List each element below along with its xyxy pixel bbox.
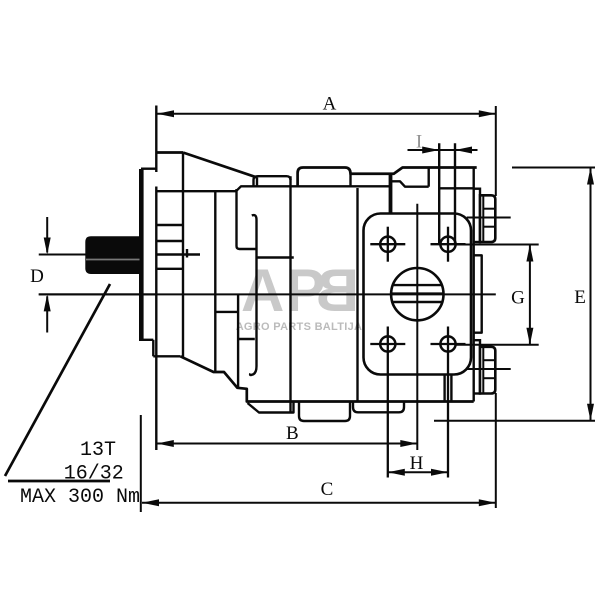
wire internal vertical left of port boss	[428, 168, 430, 187]
wire bearing bore top line	[157, 240, 182, 242]
arrow H left	[388, 469, 405, 476]
wire internal line right	[238, 338, 255, 340]
splined drive shaft	[85, 236, 139, 274]
svg-text:AP: AP	[241, 257, 326, 324]
wire taper end vertical	[256, 178, 258, 187]
wire internal housing split line	[157, 186, 391, 191]
wire G bottom extension line	[455, 344, 539, 346]
wire leader line	[5, 284, 110, 476]
wire plate vertical centerline / B extension	[416, 204, 418, 450]
wire C right extension line from bottom fitting	[495, 393, 497, 508]
svg-text:G: G	[511, 288, 525, 309]
wire spline root line on shaft	[86, 259, 140, 261]
bolt hole bottom-left	[380, 336, 395, 351]
wire flange bottom edge	[139, 339, 153, 341]
wire A right extension line to top fitting	[495, 106, 497, 196]
arrow B left	[157, 440, 174, 447]
arrow C left	[142, 499, 159, 506]
foot 3 rounded	[353, 402, 404, 413]
wire bore chord line middle	[391, 292, 443, 294]
wire A extension line upper	[155, 106, 157, 173]
wire small stub	[186, 249, 188, 258]
wire bell-flange joint vertical	[182, 153, 184, 359]
wire right bolt column H extension	[447, 362, 449, 478]
wire flange top shoulder	[141, 167, 157, 169]
arrow B right	[400, 440, 417, 447]
svg-text:B: B	[316, 257, 359, 324]
wire top port centerline	[467, 217, 511, 219]
wire stud bottom jog	[237, 246, 257, 249]
wire section joint vertical through body	[289, 176, 291, 413]
bolt hole top-left	[380, 237, 395, 252]
wire I dimension line	[408, 149, 478, 151]
wire D dimension line lower	[46, 296, 48, 332]
flange front face thick bar	[139, 169, 144, 340]
wire E bottom extension line	[434, 420, 595, 422]
arrow A left	[157, 110, 174, 117]
wire H dimension line	[388, 471, 448, 473]
wire top fitting hex facet lower	[483, 226, 495, 228]
wire rear step below plate right	[450, 375, 452, 402]
wire note underline	[8, 480, 110, 483]
wire rear step below plate left	[443, 375, 445, 402]
arrow I left	[422, 147, 439, 154]
svg-text:16/32: 16/32	[64, 463, 124, 486]
arrow D upper	[44, 238, 51, 255]
svg-text:A: A	[323, 94, 337, 115]
wire E dimension line	[590, 168, 592, 421]
wire D bottom extension stub	[39, 293, 156, 295]
wire rear face vertical	[473, 168, 475, 402]
arrow A right	[479, 110, 496, 117]
wire internal stud line	[235, 189, 237, 246]
wire internal vertical lower	[237, 295, 239, 389]
watermark AP3 logo	[241, 257, 359, 324]
rear cover plate edge profile	[474, 255, 482, 332]
wire rear housing front joint vertical	[356, 188, 358, 401]
wire D top extension line	[39, 254, 86, 256]
wire bearing bore bottom line	[157, 268, 182, 270]
svg-text:D: D	[30, 266, 44, 287]
wire bottom profile of housing	[180, 356, 473, 401]
wire center body top with rounded corner	[298, 168, 345, 187]
svg-text:B: B	[286, 423, 299, 444]
wire bell housing bottom ledge	[153, 355, 180, 357]
wire shaft axis extension line in flange	[157, 253, 200, 255]
center bore circle	[391, 268, 443, 320]
rear mounting flange plate	[364, 214, 472, 375]
wire bottom fitting hex facet lower	[483, 377, 495, 379]
bolt hole top-right	[440, 237, 455, 252]
arrow E top	[587, 168, 594, 185]
thick rib at rear housing joint	[389, 174, 393, 215]
wire port boss left side / I extension	[438, 143, 440, 243]
wire C dimension line	[142, 502, 496, 504]
wire bore chord line upper	[393, 284, 441, 286]
top boss on front housing	[254, 176, 291, 186]
svg-text:C: C	[321, 479, 334, 500]
wire front cover joint vertical	[214, 191, 216, 372]
arrow H right	[431, 469, 448, 476]
wire flange right edge / B extension line	[155, 187, 157, 451]
bolt hole bottom-right	[440, 336, 455, 351]
wire snap ring line with top hook	[252, 215, 257, 366]
wire internal line chamfer right of thick rib	[392, 181, 429, 186]
svg-text:E: E	[574, 287, 586, 308]
wire bottom fitting washer line	[482, 347, 484, 394]
wire C left extension line	[140, 415, 142, 512]
svg-text:AGRO PARTS BALTIJA: AGRO PARTS BALTIJA	[236, 321, 363, 333]
wire main horizontal centerline / D bottom extension	[39, 293, 496, 295]
wire top fitting washer line	[482, 195, 484, 242]
wire flange top edge	[157, 151, 183, 154]
svg-text:H: H	[410, 453, 424, 474]
wire flange bottom step vertical	[152, 340, 154, 357]
arrow G top	[526, 245, 533, 262]
foot 2 rounded	[299, 402, 350, 422]
arrow D lower	[44, 294, 51, 311]
wire B dimension line	[157, 443, 418, 445]
wire bell housing tapered top edge	[183, 153, 257, 178]
wire A dimension line	[157, 113, 496, 115]
wire D dimension line upper	[46, 217, 48, 253]
wire internal line left	[215, 311, 238, 313]
arrow E bottom	[587, 404, 594, 421]
svg-text:I: I	[416, 132, 422, 153]
svg-text:13T: 13T	[80, 439, 116, 462]
wire top fitting hex facet upper	[483, 208, 495, 210]
wire E top extension line	[512, 167, 595, 169]
arrow I right	[455, 147, 472, 154]
wire port drilling bottom line	[439, 187, 474, 189]
arrow G bottom	[526, 328, 533, 345]
wire notch left vertical	[349, 174, 351, 187]
wire drive gear axis short line	[257, 256, 294, 258]
wire G dimension line	[529, 245, 531, 345]
bottom port fitting	[474, 340, 480, 393]
wire port boss right side / I extension	[454, 143, 456, 243]
foot 1 under gear housing	[248, 402, 294, 413]
wire bottom fitting hex facet upper	[483, 359, 495, 361]
wire left bolt column H extension	[387, 362, 389, 478]
wire snap ring bottom hook	[250, 366, 256, 375]
wire bore chord line lower	[393, 301, 441, 303]
arrow C right	[479, 499, 496, 506]
wire bottom port centerline	[467, 368, 511, 370]
wire bearing housing line upper	[156, 224, 182, 226]
top port fitting	[474, 189, 480, 242]
svg-text:MAX 300 Nm: MAX 300 Nm	[20, 486, 140, 509]
wire top notch and rear housing top edge	[345, 168, 477, 174]
wire G top extension line	[455, 244, 539, 246]
